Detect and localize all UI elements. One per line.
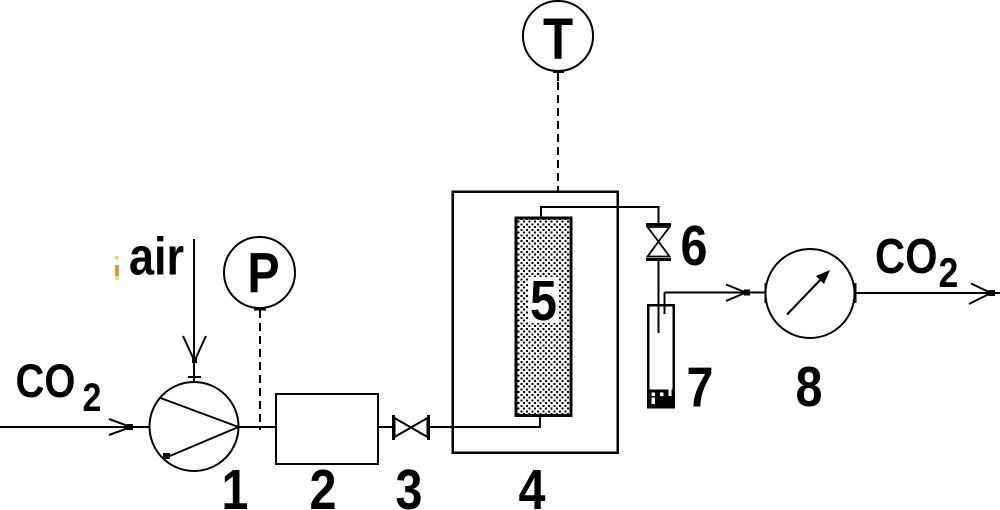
wire: stub below T: [557, 70, 559, 81]
arrow: inlet open arrowhead: [109, 419, 133, 435]
arrow: outlet open arrowhead: [969, 284, 995, 305]
tick at meter left: [765, 283, 767, 303]
svg-text:T: T: [543, 7, 573, 72]
svg-text:2: 2: [310, 458, 337, 510]
arrow: air arrowhead V: [183, 336, 206, 363]
wire: trap outlet stub: [664, 293, 666, 315]
pump chord upper: [161, 398, 239, 427]
svg-text:CO: CO: [875, 229, 937, 284]
white label box of 5: [529, 277, 559, 323]
meter needle: [787, 275, 825, 315]
wire: vessel 2 to valve 3: [378, 426, 393, 428]
svg-text:6: 6: [681, 214, 708, 278]
svg-text:1: 1: [222, 458, 249, 510]
wire: riser to bed bottom: [539, 415, 541, 428]
svg-text:8: 8: [796, 355, 823, 419]
flow meter 8 circle: [766, 249, 855, 338]
reactor bed 5 (stippled): [516, 218, 571, 416]
valve 3 (bowtie): [394, 415, 429, 440]
wire: dashed impulse line from P to pipe: [259, 310, 261, 430]
junction tick at pump top: [188, 376, 201, 378]
svg-text:7: 7: [687, 356, 714, 420]
wire: air inlet line: [193, 239, 195, 383]
svg-text:P: P: [247, 241, 279, 305]
wire: pump to vessel 2: [239, 426, 277, 428]
svg-text:4: 4: [519, 458, 546, 510]
pump chord tip dot: [163, 453, 170, 459]
trap 7 cylinder: [648, 305, 674, 407]
tick below P gauge: [254, 309, 266, 311]
tick below T gauge: [553, 71, 564, 73]
faint artifact dots left of air label: [115, 256, 119, 260]
svg-text:5: 5: [530, 269, 557, 333]
arrow: open arrowhead before meter: [726, 285, 750, 302]
svg-text:3: 3: [396, 458, 423, 510]
valve 6 (vertical bowtie): [646, 225, 671, 260]
vessel 2 rectangle: [276, 394, 378, 464]
gauge T circle: [523, 1, 593, 71]
wire: valve 6 to trap 7: [658, 260, 660, 333]
wire: bed top riser: [540, 206, 542, 218]
wire: drop to valve 6: [658, 207, 660, 225]
pump P1 circle (blower symbol, component 1): [150, 382, 239, 471]
svg-text:air: air: [129, 227, 184, 286]
furnace 4 rectangle: [453, 192, 618, 453]
svg-text:2: 2: [939, 250, 959, 296]
wire: CO2 inlet pipe: [0, 426, 150, 428]
svg-text:2: 2: [83, 374, 102, 419]
trap bottom packing (black): [649, 390, 673, 407]
pump chord lower: [165, 427, 239, 458]
gauge P circle: [224, 237, 295, 308]
svg-text:CO: CO: [16, 356, 76, 408]
wire: valve 3 into furnace 4: [430, 426, 540, 428]
meter needle arrowhead: [816, 270, 830, 284]
wire: dashed line from T to furnace: [557, 82, 559, 191]
wire: trap to meter 8: [665, 292, 767, 294]
tick at meter right: [855, 283, 857, 303]
wire: meter outlet pipe: [856, 292, 1000, 294]
wire: top header to valve 6: [540, 206, 660, 208]
